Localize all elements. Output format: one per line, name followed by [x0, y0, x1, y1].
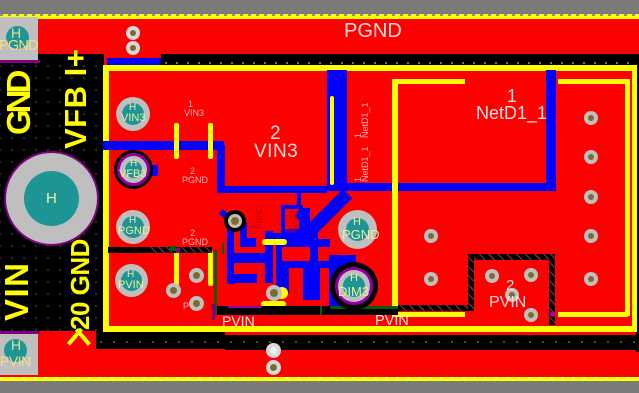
via right col 4 — [584, 229, 598, 243]
wire blue column C — [546, 70, 556, 190]
via bottom mid 2 — [266, 360, 281, 375]
green vertical line g1 — [214, 250, 217, 315]
pad H PGND left — [116, 210, 150, 244]
pad H PVIN left — [115, 264, 148, 297]
node 1 NetD1_1 label — [507, 86, 517, 107]
label 20 GND vertical — [70, 239, 90, 330]
capacitor C1 yellow bar left — [174, 123, 179, 159]
wire blue bar3 with arrow — [228, 253, 266, 263]
via box 3 — [505, 288, 519, 302]
hole H big circle — [4, 151, 99, 246]
purple top edge of inner bar — [228, 306, 262, 308]
wire blue vband2 — [265, 231, 273, 283]
wire blue under box — [273, 233, 303, 243]
silk yellow bar center bottom — [261, 301, 286, 307]
via top 1 — [126, 26, 140, 40]
top black bar dashes — [165, 62, 635, 64]
via right col 5 — [584, 272, 598, 286]
pin label 1 NetD1_1 vertical lower — [355, 146, 369, 182]
purple mark box — [550, 312, 555, 316]
pad H PVIN square bottom-left — [0, 331, 40, 334]
via right col 3 — [584, 190, 598, 204]
wire blue vertical 8 — [303, 267, 320, 300]
outline inner yellow rect left edge — [392, 79, 398, 316]
pad outline NetC2_2 blue box — [281, 205, 303, 233]
wire blue step from box — [294, 210, 311, 227]
silk yellow dot — [276, 287, 288, 299]
keepout hatched PVIN box left edge — [468, 254, 474, 311]
via bottom mid 1 — [266, 343, 281, 358]
outline inner yellow rect top seg 1 — [392, 79, 465, 84]
pin label 2 PGND lower — [190, 228, 195, 238]
pad H DIM3 — [330, 262, 378, 310]
purple mark at divider end — [176, 248, 180, 253]
bottom black bar left part — [96, 331, 225, 349]
keepout hatched PVIN box right edge — [549, 254, 555, 325]
silk yellow diagonal mark bottom-left — [67, 328, 83, 346]
wire blue arrow tip — [266, 253, 273, 263]
copper red notch B — [318, 247, 330, 261]
via top 2 — [126, 41, 140, 55]
pad H PGND square top-left — [0, 17, 38, 60]
wire blue horizontal bar to center — [217, 186, 327, 193]
wire blue U right leg — [240, 222, 247, 247]
pin label 1 NetD1_1 vertical upper — [355, 102, 369, 138]
wire blue stub VFB3 pad — [150, 165, 158, 176]
wire blue stub top-left under outline — [107, 58, 161, 65]
wire thin yellow vertical over column A — [330, 96, 334, 185]
keepout hatched bar extending left — [398, 305, 468, 311]
wire blue bar B — [340, 183, 556, 191]
wire blue U left leg — [227, 222, 234, 284]
board outline yellow rectangle — [103, 65, 637, 332]
wire blue trace VFB3 horizontal — [103, 141, 224, 150]
green mark at divider end — [169, 246, 176, 251]
inner black bar under components — [216, 306, 398, 315]
copper red notch A — [282, 247, 310, 261]
pad H VFB3 — [114, 150, 153, 189]
wire blue vertical band below diagonal — [308, 222, 318, 242]
label PVIN bottom left — [222, 313, 255, 329]
label PVIN bottom right — [375, 313, 409, 329]
pin label P bottom — [183, 301, 189, 311]
wire blue bar4 — [229, 274, 257, 283]
node 2 PVIN label — [506, 277, 514, 294]
wire blue blob center — [276, 239, 330, 268]
via center with yellow — [266, 285, 282, 301]
capacitor C2 yellow bar right — [208, 251, 213, 286]
keepout hatched PVIN box top edge — [468, 254, 555, 260]
via mid col 2 — [424, 272, 438, 286]
via black ring center — [224, 210, 246, 232]
wire blue stub box to bar — [297, 193, 301, 206]
label VIN vertical — [4, 261, 29, 321]
pin label 1 PGND vertical — [251, 206, 263, 229]
wire blue L bar — [240, 238, 256, 247]
wire blue stub into via — [219, 209, 233, 223]
wire blue bar under box wide — [294, 239, 318, 247]
pad H PGND right — [338, 210, 377, 249]
divider black bar between PGND/PVIN rows — [108, 247, 212, 253]
top black bar — [161, 54, 639, 66]
wire blue main diagonal — [309, 189, 352, 232]
wire blue blob under DIM3 — [329, 255, 356, 311]
outline inner yellow rect right edge — [625, 79, 630, 316]
pin label 2 PGND upper — [190, 166, 195, 176]
green vertical g5 — [320, 306, 322, 315]
purple vertical line p1 — [212, 304, 215, 320]
green horizontal under DIM3 — [330, 306, 398, 309]
outline inner yellow rect bottom seg 1 — [393, 312, 465, 317]
via cap2 area 1 — [189, 268, 204, 283]
divider hatch part — [150, 247, 212, 253]
via right col 2 — [584, 150, 598, 164]
left keepout black column — [0, 54, 104, 331]
via box 2 — [524, 268, 538, 282]
via cap2 area 2 — [166, 283, 181, 298]
via mid col 1 — [424, 229, 438, 243]
outline inner yellow rect bottom seg 2 — [558, 312, 628, 317]
capacitor C2 yellow bar left — [174, 251, 179, 286]
node 2 VIN3 label — [270, 123, 281, 145]
right black edge strip — [636, 54, 639, 352]
bottom black bar right part — [225, 335, 639, 350]
capacitor C1 yellow bar right — [208, 123, 213, 159]
green vertical g2 — [222, 243, 224, 254]
node PGND top plane label — [344, 20, 454, 40]
bottom black bar dashes — [100, 341, 639, 343]
label GND vertical — [6, 74, 31, 135]
silk yellow bar center top — [262, 239, 287, 245]
wire top board outline yellow dashed — [0, 14, 639, 19]
wire blue band right of box — [303, 208, 310, 244]
via right col 1 — [584, 111, 598, 125]
wire bottom board outline yellow dashed — [0, 377, 639, 381]
label VFB I+ vertical — [64, 49, 88, 149]
pad H VIN3 — [116, 97, 150, 131]
pin label 1 VIN3 — [188, 99, 193, 109]
via box 1 — [485, 269, 499, 283]
wire blue vertical leg — [217, 145, 225, 193]
via box 4 — [524, 308, 538, 322]
wire blue column A — [327, 70, 347, 191]
via cap2 area 3 — [189, 296, 204, 311]
wire blue vertical 7 — [276, 267, 289, 293]
pin label 2 NetC2_2 vertical — [286, 201, 298, 233]
outline inner yellow rect top seg 2 — [558, 79, 630, 84]
